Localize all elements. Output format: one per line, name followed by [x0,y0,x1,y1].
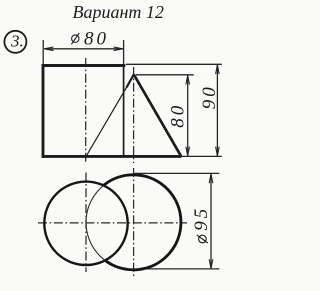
svg-text:Вариант 12: Вариант 12 [73,2,164,22]
svg-text:95: 95 [191,206,212,231]
svg-text:80: 80 [84,29,109,50]
svg-text:3.: 3. [10,31,24,50]
svg-text:80: 80 [168,103,189,128]
svg-text:90: 90 [199,84,220,109]
